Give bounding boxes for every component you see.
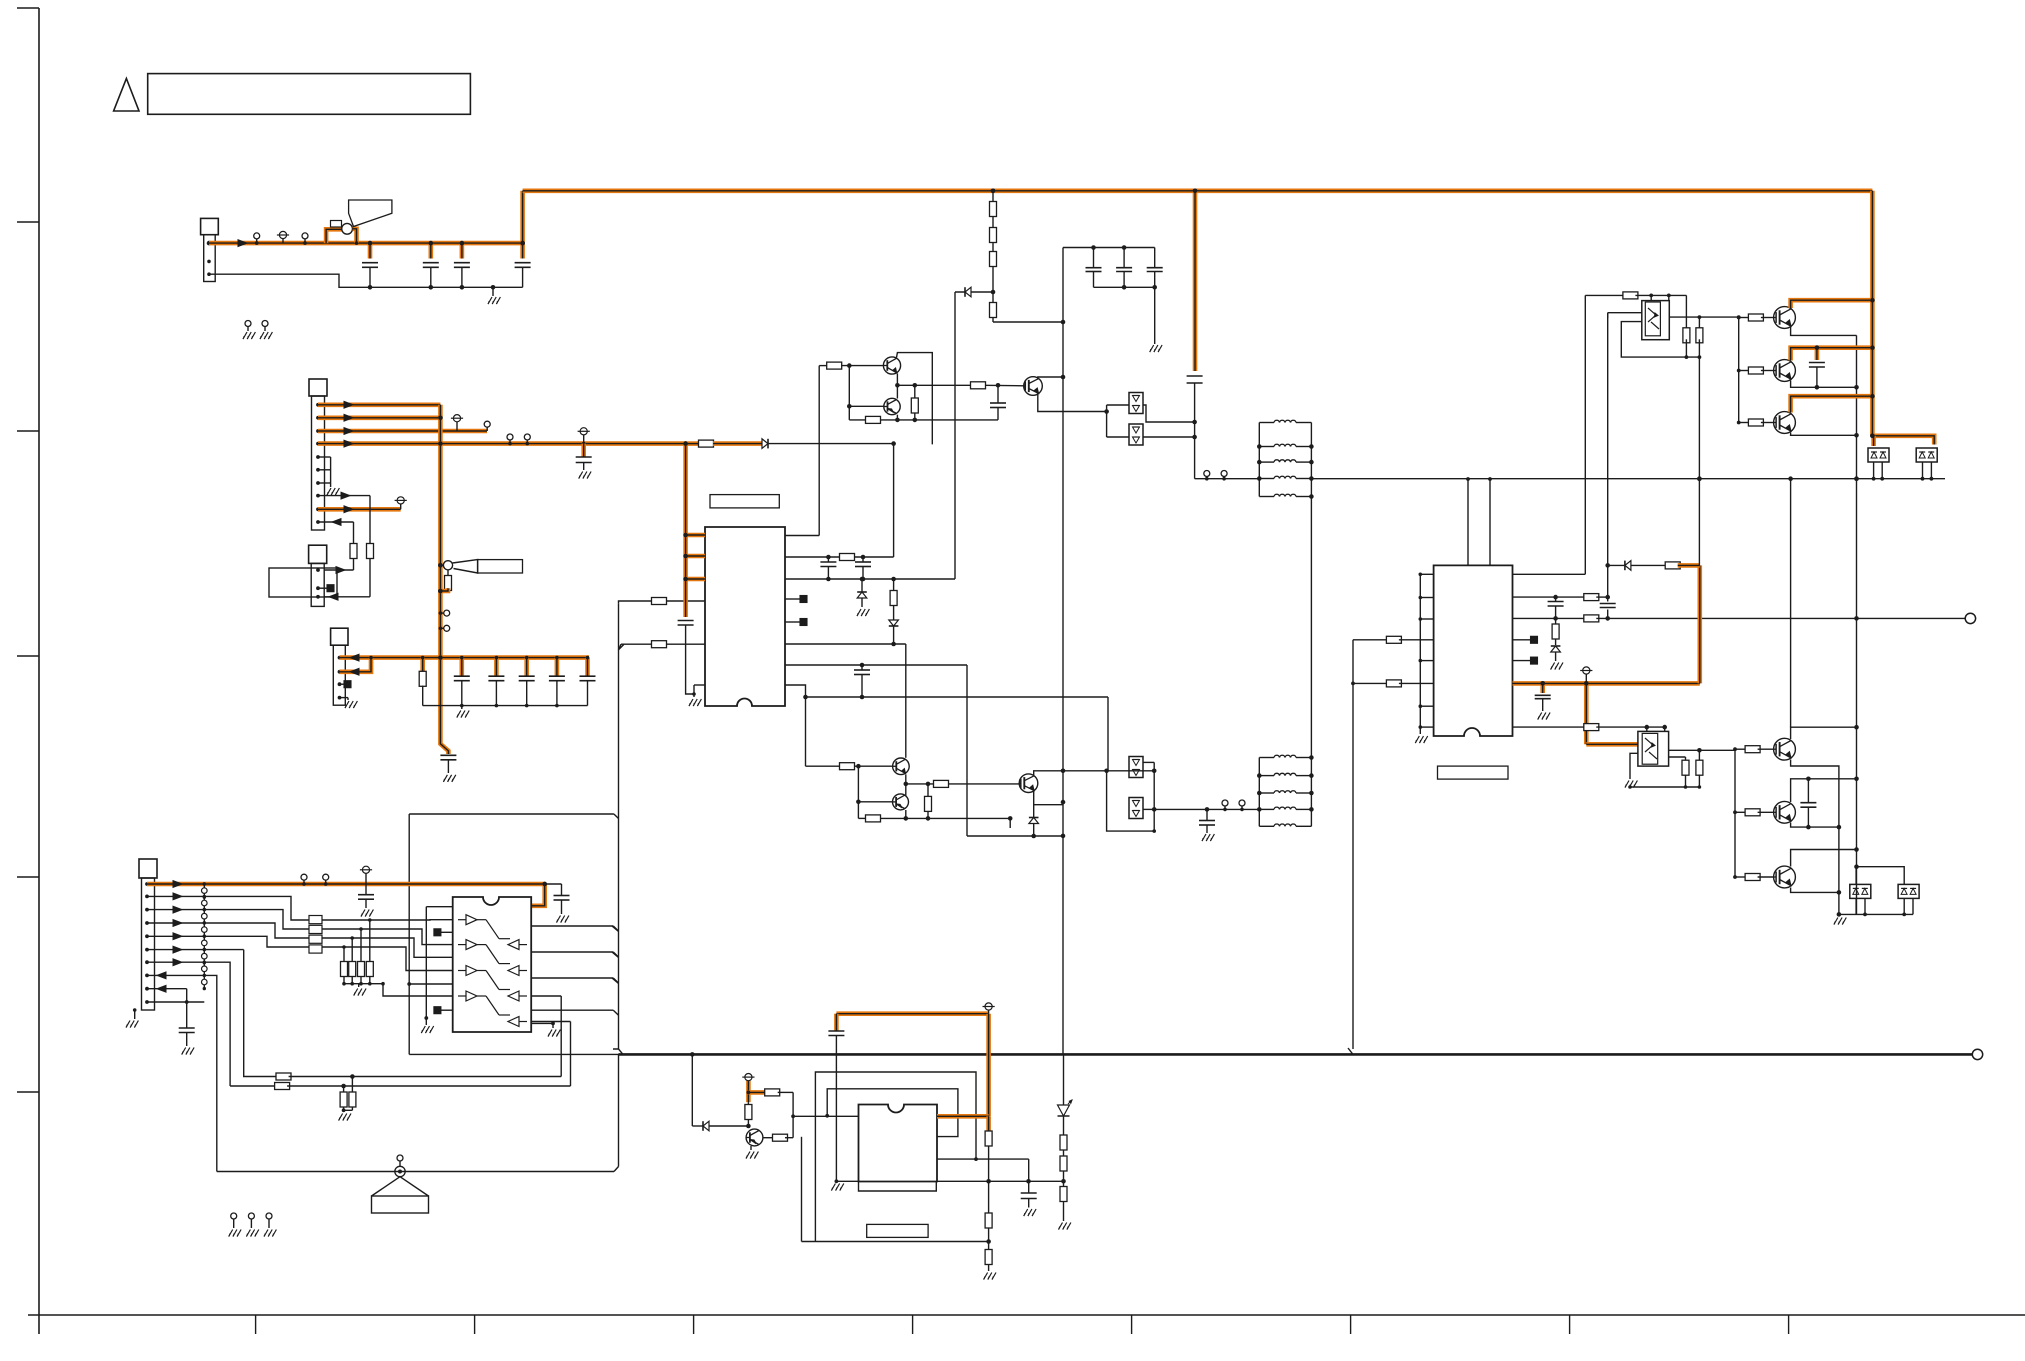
orange riser to top rail (520, 191, 525, 246)
capacitor C7 (1147, 248, 1163, 290)
terminal wire y618 (1513, 615, 1966, 622)
resistor chain R1-R4 from top rail (990, 191, 1066, 325)
photocoupler PC1 (1129, 393, 1143, 414)
CN2 pin10 wire (318, 519, 354, 526)
orange wire CN2-1 (318, 401, 440, 408)
CN4 wires to resistor pack (204, 896, 309, 1171)
Q12 emitter (1791, 381, 1857, 388)
test point TP20 (360, 866, 372, 884)
IC U1 pin wire y644 (785, 643, 906, 645)
driver coupler PC6 (1642, 295, 1670, 339)
capacitor C2 (423, 241, 439, 290)
vertical x1699 down (1697, 357, 1702, 565)
IC U1 ground (689, 685, 705, 706)
transistor Q12 (1774, 360, 1796, 382)
PC5 ground (1625, 753, 1638, 789)
transistor Q13 (1774, 412, 1796, 434)
hex buffer IC U3 (453, 897, 532, 1032)
junction dots overlay (438, 189, 1875, 887)
Q6 emitter (905, 810, 907, 818)
label box above IC U1 (710, 495, 779, 508)
test point TP18 (301, 874, 307, 886)
bus vertical x618 (612, 603, 624, 1054)
collector loop wire (897, 353, 933, 445)
big box K1 (269, 568, 337, 597)
Q2 emitter wire (1034, 792, 1063, 805)
orange drop into IC U4 (937, 1014, 989, 1131)
capacitor C17 (454, 656, 470, 708)
resistor R5 (911, 385, 918, 422)
orange into hex IC (531, 884, 545, 906)
IC U4 pwm controller (859, 1105, 938, 1182)
driver line top (1585, 292, 1686, 299)
weight symbol chassis (372, 1155, 429, 1213)
Q6 base wire (856, 766, 892, 818)
PC6 emitter loop (1621, 322, 1701, 359)
link circles column (202, 882, 208, 990)
lower link wire A (244, 950, 562, 1080)
capacitor C24 gnd (179, 1002, 195, 1055)
CN4 bottom ground (126, 1008, 138, 1027)
vertical x1353 long (1351, 640, 1355, 1049)
label box U4 (867, 1224, 928, 1237)
weight line (217, 1054, 619, 1173)
lower pair bottom wire (858, 815, 1012, 822)
IC U4 sub box (859, 1182, 937, 1192)
PC4 right stub (1143, 808, 1154, 810)
capacitor C9 (990, 385, 1006, 420)
PC1 PC2 left wires (1107, 405, 1129, 437)
capacitor C8 (1187, 376, 1203, 479)
no-connect X3 (318, 585, 334, 592)
resistor R18 gnd (984, 1242, 996, 1280)
PC6 left pin wire (1608, 313, 1642, 318)
vertical x1607 (1607, 313, 1609, 619)
fuse F1 with bump (326, 221, 358, 245)
orange drop to driver (1586, 683, 1638, 744)
transistor Q5 (893, 758, 910, 775)
wire T1 to T2 (1310, 497, 1312, 758)
test point TP7 (1221, 471, 1227, 481)
base feed wire (819, 362, 883, 369)
resistor R12 gnd (339, 1086, 351, 1121)
loop rect A (815, 1072, 977, 1242)
resistor R8 (925, 784, 932, 821)
no-connect X7 (1513, 636, 1538, 643)
transistor Q6 (893, 794, 909, 810)
warning note box (148, 74, 471, 115)
wire x955 vertical (954, 292, 956, 579)
wire to transformer T2 (1154, 807, 1259, 812)
capacitor C4 (515, 243, 531, 287)
diode D5 (762, 439, 896, 449)
test point TP2 (277, 231, 289, 243)
capacitor C11 (820, 557, 836, 581)
CN4 pin9 wire (147, 985, 189, 1004)
resistor R23 (1696, 750, 1703, 789)
vertical x967 (966, 665, 968, 836)
vertical x1585 (1584, 295, 1586, 574)
Q13 collector orange (1791, 394, 1875, 413)
Q13 emitter (1791, 433, 1857, 436)
border frame left edge with ticks (17, 8, 39, 1334)
capacitor C3 (454, 241, 470, 290)
wire to transformer T1 (1195, 478, 1260, 480)
orange stub branch (747, 1081, 767, 1102)
orange main vertical right (1870, 191, 1875, 438)
pack RA1 out wires (322, 920, 453, 971)
no-connect pin X1 (785, 596, 807, 603)
PC5 bottom bus (1630, 786, 1699, 788)
capacitor C22 gnd (358, 884, 374, 917)
transistor Q9 (1774, 801, 1796, 823)
connector CN5 (331, 628, 348, 705)
diode pair box DB3 (1850, 867, 1871, 917)
test point TP9 (1239, 800, 1245, 811)
wire to Q3 collector (905, 644, 907, 758)
orange wire IC U2 out (1513, 681, 1700, 686)
bold bus y1054 (619, 1048, 1973, 1057)
diode D1 (955, 287, 993, 297)
hex IC left rail (421, 907, 452, 1033)
photocoupler PC2 (1129, 424, 1143, 445)
Q4 emitter (896, 415, 898, 420)
ground G2 (1150, 345, 1162, 352)
long wire y479 (1311, 476, 1945, 481)
Q1 emitter wire (1038, 394, 1109, 414)
CN2 pin8 wire (318, 492, 370, 499)
capacitor C23 gnd (545, 884, 570, 923)
no-connect pin X2 (785, 619, 807, 626)
wire IC1 pin to pair base (619, 598, 706, 605)
vertical x409 (407, 814, 411, 1054)
Q10 collector (1791, 847, 1859, 866)
transformer T1 winding block (1257, 420, 1314, 499)
warning triangle (114, 79, 139, 112)
wire x1010 stub (1009, 818, 1011, 828)
capacitor C21 (580, 656, 596, 706)
test point TP25 (983, 1003, 995, 1014)
Q8 collector (1791, 725, 1859, 739)
transformer T2 winding block (1257, 755, 1314, 826)
thin bus into main bus (409, 1053, 618, 1055)
label box U2 (1438, 766, 1509, 779)
resistor R15 (745, 1102, 752, 1126)
capacitor C25 line (828, 1031, 844, 1191)
hex buffer gates (458, 915, 527, 1027)
test point TP4 with ground (243, 321, 255, 340)
hex IC right rail (531, 1022, 560, 1037)
PC3 right stub (1143, 761, 1154, 763)
bottom bus right (1839, 913, 1913, 915)
capacitor C14 with ground (1199, 809, 1215, 841)
resistor R9 chain (324, 522, 357, 573)
Q4 base wire (847, 366, 884, 420)
orange to diode boxes (1872, 436, 1934, 446)
test point TP19 (323, 874, 329, 886)
connector CN1 (201, 218, 219, 281)
orange long wire CN2-4 (318, 440, 762, 447)
terminal circle T1 (1965, 613, 1975, 623)
main vertical x1856 (1854, 335, 1859, 914)
Q9 collector (1791, 777, 1859, 803)
resistor R13 (344, 1077, 356, 1111)
diode pair box DB4 (1856, 867, 1919, 917)
IC U2 pin y597 wire (1513, 594, 1610, 601)
transistor Q4 (884, 398, 900, 414)
Q3 emitter wire (895, 374, 900, 399)
capacitor C1 (362, 241, 378, 290)
resistor R10 chain (324, 496, 374, 601)
base wire to IGBT Q2 (906, 780, 1019, 787)
transistor Q8 (1774, 738, 1796, 760)
pack RA2 top wires (342, 918, 371, 961)
PC5 out wires (1669, 748, 1735, 757)
capacitor C6 (1116, 248, 1132, 290)
IC U2 left rail (1415, 573, 1433, 744)
transistor Q2 IGBT (1019, 774, 1038, 793)
test point TP16 (578, 428, 590, 446)
IC U2 sub-driver (1434, 565, 1513, 736)
resistor R16 (985, 1131, 992, 1184)
PC1 right wire (1143, 405, 1195, 422)
resistor pack RA2 (341, 962, 374, 977)
diode D6 branch (692, 1054, 750, 1130)
orange wire CN2-3 (318, 428, 487, 435)
hex IC input x409 (409, 983, 453, 985)
cap bank bottom wire (1094, 287, 1155, 344)
capacitor C10 (678, 621, 694, 695)
capacitor C16 ground (576, 444, 592, 479)
orange wire CN4-1 (147, 881, 547, 888)
Q9 emitter (1791, 823, 1839, 828)
test point TP26 (1580, 667, 1592, 684)
IC U1 pin wire y579 (785, 577, 955, 582)
PC2 right wire (1143, 436, 1195, 438)
diode pair box DB2 (1916, 448, 1937, 481)
zener D7 chain (1058, 1054, 1073, 1181)
capacitor C30 (1800, 779, 1816, 830)
PC right vertical (1152, 762, 1157, 832)
capacitor C31 (1809, 348, 1825, 390)
Q11 collector orange (1791, 298, 1875, 308)
orange bus into IC U1 (683, 441, 705, 617)
test point TP3 (302, 233, 308, 245)
Q12 collector orange (1791, 345, 1875, 360)
collector riser x1790 (1788, 476, 1793, 727)
CN5 ground (340, 698, 358, 708)
resistor R19 gnd (1059, 1181, 1071, 1229)
IC U1 pin wire y665 (785, 663, 967, 668)
capacitor C28 gnd (1535, 683, 1551, 719)
resistor R6 (840, 554, 855, 561)
capacitor C15 ground (440, 755, 456, 782)
wire y836 (967, 835, 1063, 837)
wire y814 link (409, 813, 614, 815)
test point TP8 (1222, 800, 1228, 811)
vertical x1108 (1107, 697, 1109, 771)
capacitor C12 (855, 557, 871, 581)
PC6 top right corner (1685, 295, 1687, 331)
test point TP11 (484, 421, 490, 431)
orange wire CN2-9 (318, 506, 401, 513)
loop left C (801, 1137, 803, 1242)
flag callout label (349, 200, 392, 227)
vertical wire x1063 (1061, 248, 1066, 1055)
IC U1 left resistor wires (619, 641, 706, 650)
connector CN3 (309, 545, 327, 606)
resistor R17 (985, 1181, 992, 1243)
Q7 collector wire (763, 1114, 795, 1141)
test point TP13 (439, 625, 450, 631)
Q11 emitter (1791, 327, 1857, 335)
capacitor C26 gnd (937, 1159, 1036, 1216)
no-connect X6 (434, 1007, 453, 1014)
cap bank top wire (1063, 245, 1155, 250)
pair bottom wire (849, 416, 998, 423)
Q5 emitter wire (904, 775, 909, 797)
resistor R14 (765, 1089, 793, 1138)
PC6 out wire (1669, 315, 1740, 319)
test points TP21-23 (229, 1213, 277, 1237)
no-connect X4 (340, 681, 352, 688)
zener D4 (1029, 805, 1039, 839)
capacitor C19 (519, 656, 535, 708)
capacitor C18 (488, 656, 504, 708)
base line to IGBT Q1 (897, 382, 1023, 389)
resistor R20 zener D8 gnd (1551, 618, 1563, 669)
capacitor C20 (549, 656, 565, 708)
test point TP6 (1204, 471, 1210, 481)
IC U1 pin wire y685 stepped (785, 685, 1108, 699)
lower pair base wire (806, 763, 893, 770)
cap rail ground bus (423, 706, 588, 718)
wire to IC U1 right (893, 444, 895, 557)
test point TP17 (395, 497, 407, 510)
CN4 signal wires (147, 893, 204, 979)
transistor Q7 (746, 1129, 763, 1158)
PC3 PC4 left loop (1107, 771, 1155, 831)
IC U2 pin y727 wire (1513, 724, 1667, 731)
terminal circle T2 (1972, 1049, 1982, 1059)
loop rect B (825, 1089, 958, 1137)
orange riser right (1698, 565, 1703, 683)
resistor R24 (1683, 328, 1690, 357)
IC U2 left resistor wires (1353, 636, 1434, 687)
orange supply wire from CN1 (209, 240, 523, 247)
CN2 pins 5-7 bracket (318, 457, 339, 495)
vertical to lower pair base (805, 697, 807, 766)
diode pair box DB1 (1868, 448, 1889, 481)
Q8 emitter (1791, 760, 1842, 917)
resistor R11 (419, 656, 426, 706)
base bus lower trio (1733, 746, 1774, 881)
pack RA2 bottom bus (342, 977, 371, 996)
capacitor C29 inline (1600, 604, 1616, 608)
ground G1 (488, 285, 500, 304)
orange wire CN2-2 (318, 414, 443, 421)
resistor pack RA1 (309, 916, 322, 954)
wire y1181 (836, 1179, 1065, 1184)
base bus upper trio (1737, 314, 1774, 426)
test point TP24 (742, 1074, 754, 1081)
capacitor C5 (1086, 248, 1102, 288)
vertical from pair to IC1 pin (785, 366, 819, 536)
no-connect X5 (434, 929, 453, 936)
orange top power rail (523, 189, 1873, 194)
orange wire to IC U4 (836, 1014, 988, 1031)
photocoupler PC4 (1129, 798, 1143, 819)
capacitor C13 (854, 665, 870, 699)
IC U4 pin wire (793, 1115, 858, 1117)
Q1 collector wire (1038, 377, 1063, 379)
IC U1 main controller (705, 527, 785, 706)
connector CN2 (309, 379, 327, 530)
IC U2 top wires up (1466, 477, 1492, 565)
Q10 emitter (1791, 888, 1839, 893)
resistor R7 diode D3 (889, 579, 899, 646)
transistor Q1 IGBT (1024, 377, 1043, 396)
resistor R22 (1682, 757, 1689, 789)
test point TP10 (451, 415, 463, 431)
CN1 return wire (209, 274, 523, 287)
loop bottom wire (802, 1241, 989, 1243)
orange bus vertical (438, 405, 448, 754)
IC U2 pin y574 wire (1513, 573, 1586, 575)
Q2 collector wire (1034, 769, 1157, 776)
IC U1 pin wire y557 (785, 555, 894, 560)
hex output wires right (531, 926, 618, 1015)
lower link wire B (230, 1022, 570, 1090)
test point TP12 (439, 610, 450, 616)
connector CN4 (139, 859, 157, 1010)
wire CN4 to hex pin (370, 982, 453, 996)
transistor Q10 (1774, 866, 1796, 888)
no-connect X8 (1513, 657, 1538, 664)
ground G3 (1834, 914, 1846, 924)
resistor R25 (1696, 317, 1703, 357)
test point TP14 (507, 434, 513, 445)
CN4 pin10 wire (147, 1001, 204, 1003)
zener D2 with ground (857, 579, 869, 616)
capacitor C27 (1548, 597, 1564, 621)
orange wire CN5-1 (340, 654, 590, 661)
test point TP15 (524, 434, 530, 445)
orange drop from rail (1193, 191, 1198, 371)
test point TP1 (254, 233, 260, 245)
transistor Q3 (883, 357, 900, 374)
transistor Q11 (1774, 307, 1796, 329)
orange wire CN5-2 (340, 656, 373, 675)
diode D9 resistor R21 (1605, 561, 1699, 571)
fuse F2 bypass (440, 561, 452, 591)
test point TP5 with ground (260, 321, 272, 340)
driver coupler PC5 (1638, 727, 1669, 766)
photocoupler PC3 (1129, 757, 1143, 778)
flag callout F2 (453, 560, 523, 573)
border frame bottom edge with ticks (28, 1315, 2025, 1334)
